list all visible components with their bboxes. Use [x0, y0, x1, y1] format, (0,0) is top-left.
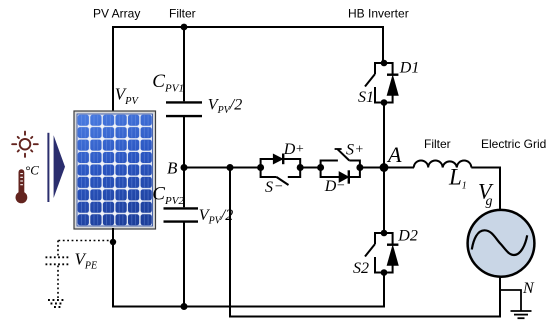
wire: S2 to bottom bus — [383, 273, 385, 308]
diode D2 — [384, 233, 398, 273]
svg-text:CPV1: CPV1 — [152, 71, 184, 94]
svg-text:CPV2: CPV2 — [152, 184, 184, 207]
wire: B row to bypass branch — [184, 167, 261, 169]
svg-text:Vg: Vg — [478, 178, 494, 209]
ground: earth (dotted) for V_PE — [48, 300, 66, 307]
wire: S1 to node A — [383, 103, 385, 169]
node: S1 top — [381, 60, 388, 67]
PV panel module — [74, 111, 156, 229]
svg-text:°C: °C — [25, 163, 39, 178]
svg-text:D1: D1 — [399, 60, 420, 77]
switch S- — [261, 168, 301, 186]
node A — [380, 163, 389, 172]
wire: between bypass blocks — [300, 167, 321, 169]
node: bypass block1 left terminal — [257, 164, 264, 171]
svg-text:VPV/2: VPV/2 — [199, 207, 233, 227]
node B — [181, 164, 188, 171]
svg-text:B: B — [167, 159, 178, 178]
diode D- — [321, 168, 360, 184]
switch S+ — [321, 149, 360, 168]
capacitor C_PV1 — [166, 26, 202, 168]
node: bypass block2 right terminal — [356, 164, 363, 171]
svg-text:Filter: Filter — [169, 7, 196, 21]
node: S2 bottom — [381, 269, 388, 276]
switch S2 — [365, 233, 384, 273]
wire: node A to S2 — [383, 168, 385, 234]
wire: node A to filter inductor — [384, 167, 414, 169]
node: neutral tap — [227, 164, 234, 171]
wire: neutral return (bottom) — [229, 316, 501, 318]
wire: neutral branch to earth — [500, 290, 521, 311]
svg-text:D: D — [324, 178, 337, 195]
node: DC-link tap on top bus — [181, 24, 188, 31]
wire: block2 to node A — [360, 167, 384, 169]
diode D1 — [384, 63, 398, 103]
svg-text:N: N — [522, 280, 535, 297]
wire: inductor to grid — [471, 168, 500, 211]
node: bypass block2 left terminal — [317, 164, 324, 171]
node: S2 top — [381, 230, 388, 237]
svg-text:D: D — [283, 141, 296, 158]
wire: HB leg top — [382, 26, 384, 64]
node: S1 bottom — [381, 99, 388, 106]
wire: neutral return (vertical) — [229, 168, 231, 316]
diode D+ — [261, 154, 301, 168]
node: V_PE tap — [110, 239, 116, 245]
switch S1 — [365, 63, 384, 103]
svg-text:PV Array: PV Array — [93, 7, 140, 21]
ground: earth at N — [511, 311, 532, 318]
svg-text:S1: S1 — [358, 89, 374, 106]
wire: PV negative lead — [112, 228, 114, 307]
svg-text:Electric Grid: Electric Grid — [481, 137, 546, 151]
svg-text:VPV: VPV — [115, 85, 140, 107]
wire: bottom DC bus — [112, 306, 384, 308]
thermometer icon (temperature) — [16, 169, 28, 203]
svg-text:A: A — [386, 142, 402, 167]
svg-text:+: + — [295, 142, 304, 157]
svg-text:VPV/2: VPV/2 — [208, 96, 242, 116]
svg-text:−: − — [274, 180, 283, 195]
svg-text:L1: L1 — [448, 165, 467, 192]
svg-text:+: + — [355, 143, 364, 158]
svg-text:S: S — [265, 179, 273, 196]
node: C_PV2 bottom junction — [181, 303, 188, 310]
node: bypass block1 right terminal — [297, 164, 304, 171]
wire: top DC bus — [112, 26, 384, 28]
wire: PV positive lead — [112, 26, 114, 112]
svg-text:S: S — [346, 142, 354, 159]
inductor L1 — [414, 160, 472, 167]
svg-text:Filter: Filter — [424, 137, 451, 151]
AC source Vg (electric grid) — [468, 210, 535, 277]
capacitor V_PE (parasitic, dotted) — [46, 241, 114, 299]
sun icon (irradiance) — [12, 132, 38, 157]
svg-text:HB Inverter: HB Inverter — [348, 7, 409, 21]
svg-text:D2: D2 — [397, 227, 418, 244]
capacitor C_PV2 — [164, 168, 199, 308]
svg-text:VPE: VPE — [75, 250, 98, 272]
svg-text:S2: S2 — [353, 260, 369, 277]
wire: grid return — [499, 276, 501, 318]
irradiance arrow — [47, 133, 65, 202]
svg-text:−: − — [336, 179, 345, 194]
